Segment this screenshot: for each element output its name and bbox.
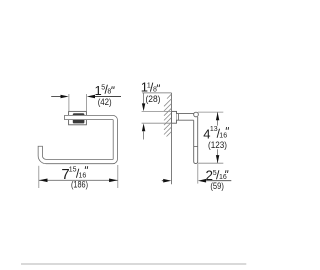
- dimension 186: extension lines: [39, 165, 118, 188]
- svg-text:(186): (186): [71, 180, 88, 190]
- wall plate (side view): [172, 111, 177, 123]
- dimension 59: text 2 5/16" (59): [206, 168, 229, 191]
- dimension 28: shelf and arrows: [142, 93, 172, 140]
- dimension 123: text 4 13/16" (123): [203, 126, 228, 150]
- dimension 186: text 7 15/16" (186): [61, 166, 88, 190]
- ring bar (open square ring): [40, 117, 115, 161]
- svg-text:5: 5: [101, 85, 105, 92]
- dimension 123: dim line and arrows: [216, 112, 219, 163]
- svg-text:15: 15: [69, 167, 77, 174]
- dimension 42: arrows and lines: [51, 95, 121, 99]
- svg-text:5: 5: [213, 170, 217, 177]
- svg-text:1: 1: [147, 82, 151, 89]
- svg-text:(59): (59): [210, 181, 224, 191]
- wall line: [171, 93, 173, 184]
- dimension 42: text 1 5/8" (42): [95, 83, 115, 107]
- svg-text:16: 16: [79, 173, 87, 180]
- svg-text:(28): (28): [146, 94, 161, 104]
- dimension 42: extension lines: [69, 94, 87, 111]
- dimension 59: dim line and arrows: [162, 179, 232, 183]
- post / arm: [177, 114, 195, 121]
- top bar cross-section circle: [194, 112, 199, 117]
- ring edge-on vertical band: [194, 117, 198, 164]
- wall hatching: [164, 94, 171, 136]
- svg-text:(42): (42): [98, 97, 112, 107]
- svg-text:8: 8: [107, 89, 111, 96]
- dimension 28: text 1 1/8" (28): [141, 79, 161, 104]
- svg-text:13: 13: [210, 126, 218, 133]
- dimension 59: extension line: [197, 164, 199, 184]
- dimension 123: extension lines: [198, 112, 223, 163]
- svg-text:16: 16: [219, 133, 227, 140]
- bottom separator line: [21, 263, 246, 265]
- svg-text:(123): (123): [208, 140, 227, 150]
- dimension 186: dim line and arrows: [39, 179, 118, 183]
- svg-text:8: 8: [153, 87, 157, 94]
- wall plate (front view): [69, 111, 87, 124]
